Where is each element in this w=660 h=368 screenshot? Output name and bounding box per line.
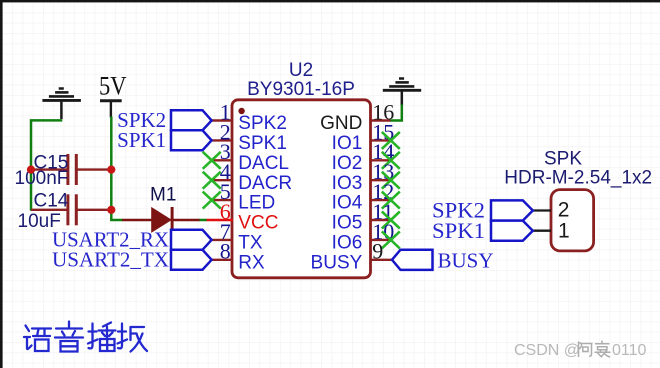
pin 15 IO1: [332, 119, 395, 154]
ground GND left: [42, 89, 81, 120]
no-connect X pin 4: [203, 172, 221, 189]
port SPK2 (left of U2): [117, 108, 211, 132]
wire ground to C15/C14 net: [31, 120, 62, 210]
diode M1: [122, 185, 200, 233]
svg-text:HDR-M-2.54_1x2: HDR-M-2.54_1x2: [504, 167, 652, 188]
svg-text:TX: TX: [238, 233, 263, 254]
svg-text:SPK1: SPK1: [238, 133, 287, 154]
pin 10 IO6: [332, 219, 395, 254]
no-connect X pin 11: [382, 212, 400, 229]
junction node C14 right: [107, 206, 115, 214]
connector pin 2: [533, 199, 570, 222]
pin 16 GND: [320, 99, 394, 134]
connector SPK body: [551, 190, 594, 251]
port USART2_TX: [52, 248, 212, 272]
pin 7 TX: [212, 219, 263, 254]
wire diode to pin6: [200, 219, 208, 222]
pin 12 IO4: [332, 179, 395, 214]
pin 5 LED: [212, 179, 276, 214]
svg-text:GND: GND: [320, 113, 362, 134]
svg-text:9: 9: [372, 239, 383, 264]
svg-text:0110: 0110: [612, 342, 647, 359]
junction node C15 right: [107, 166, 115, 174]
pin 3 DACL: [212, 139, 289, 174]
svg-text:SPK1: SPK1: [432, 218, 485, 243]
no-connect X pin 12: [382, 192, 400, 209]
no-connect X pin 14: [382, 152, 400, 169]
svg-text:M1: M1: [150, 185, 176, 206]
no-connect X pin 5: [203, 192, 221, 209]
svg-text:2: 2: [558, 199, 570, 222]
svg-text:BUSY: BUSY: [311, 252, 363, 273]
connector pin 1: [533, 219, 570, 242]
watermark CSDN: [514, 342, 647, 359]
pin 1 SPK2: [212, 99, 287, 134]
svg-text:USART2_TX: USART2_TX: [52, 248, 169, 272]
svg-text:5V: 5V: [99, 72, 127, 101]
svg-text:BUSY: BUSY: [438, 248, 494, 272]
svg-text:LED: LED: [238, 193, 275, 214]
pin 2 SPK1: [212, 119, 287, 154]
wire pin16 to ground: [391, 105, 402, 121]
pin 13 IO3: [332, 159, 395, 194]
svg-text:IO6: IO6: [332, 233, 363, 254]
svg-text:DACR: DACR: [238, 173, 292, 194]
junction node C15 left: [27, 166, 35, 174]
connector SPK header labels: [504, 148, 652, 188]
pin 6 VCC: [207, 199, 279, 234]
capacitor C15: [15, 152, 112, 189]
svg-text:IO5: IO5: [332, 213, 363, 234]
svg-text:IO2: IO2: [332, 153, 363, 174]
svg-text:SPK1: SPK1: [117, 128, 166, 152]
port SPK1 (left of U2): [117, 128, 211, 152]
svg-text:IO4: IO4: [332, 193, 363, 214]
pin 4 DACR: [212, 159, 292, 194]
capacitor C14: [18, 191, 112, 233]
pin 11 IO5: [332, 199, 394, 234]
svg-text:8: 8: [220, 239, 231, 264]
sheet border top: [0, 0, 660, 2]
port SPK2 (header): [432, 198, 533, 223]
语: [24, 326, 32, 350]
no-connect X pin 15: [382, 132, 400, 149]
port BUSY (right of U2): [392, 248, 494, 272]
svg-text:1: 1: [558, 219, 570, 242]
svg-text:RX: RX: [238, 252, 265, 273]
pin 8 RX: [212, 239, 265, 274]
pin 9 BUSY: [311, 239, 392, 274]
no-connect X pin 10: [382, 231, 400, 248]
port SPK1 (header): [432, 218, 533, 243]
IC U2 body: [232, 60, 371, 278]
播: [88, 324, 98, 349]
watermark 阿衰 (drawn strokes): [579, 341, 611, 358]
svg-text:BY9301-16P: BY9301-16P: [247, 79, 355, 100]
port USART2_RX: [52, 228, 212, 252]
svg-text:IO1: IO1: [332, 133, 363, 154]
svg-text:SPK: SPK: [544, 148, 582, 169]
svg-text:IO3: IO3: [332, 173, 363, 194]
svg-text:100nF: 100nF: [15, 168, 69, 189]
title text 语音播报 (drawn strokes): [24, 322, 147, 352]
报: [118, 324, 128, 349]
svg-text:VCC: VCC: [238, 213, 278, 234]
pin 14 IO2: [332, 139, 395, 174]
wire 5V rail: [111, 117, 123, 221]
音: [55, 322, 83, 352]
svg-text:SPK2: SPK2: [238, 113, 287, 134]
no-connect X pin 3: [203, 152, 221, 169]
power 5V: [99, 72, 127, 118]
ground GND right: [383, 79, 421, 107]
svg-text:C14: C14: [34, 191, 69, 212]
svg-text:CSDN @: CSDN @: [514, 342, 580, 359]
no-connect X pin 13: [382, 172, 400, 189]
sheet border left: [0, 0, 3, 368]
svg-text:DACL: DACL: [238, 153, 289, 174]
